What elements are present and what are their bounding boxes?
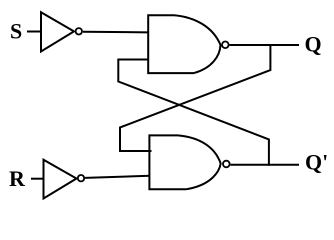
wire S to inverter input — [27, 31, 41, 33]
nand gate U4 (bottom) body — [149, 135, 220, 189]
svg-text:S: S — [10, 19, 22, 44]
inverter U1 output bubble — [76, 28, 82, 34]
nand gate U3 (top) body — [148, 15, 220, 73]
wire inverter U1 to NAND U3 input 1 — [83, 31, 148, 34]
svg-text:Q': Q' — [305, 150, 328, 175]
svg-text:R: R — [9, 166, 26, 191]
inverter U2 triangle — [44, 160, 77, 199]
wire R to inverter input — [31, 178, 44, 180]
wire feedback Q' to NAND U3 input 2 (junction at 269,164.8) — [118, 60, 269, 166]
nand gate U3 output bubble — [222, 42, 229, 49]
wire U4 output to Q' — [230, 164, 299, 166]
inverter U1 triangle — [41, 12, 74, 51]
wire U3 output to Q — [230, 44, 300, 46]
nand gate U4 output bubble — [223, 161, 230, 168]
wire feedback Q to NAND U4 input 1 (junction at 270.4,45) — [120, 44, 270, 151]
inverter U2 output bubble — [78, 175, 84, 181]
svg-text:Q: Q — [305, 32, 322, 57]
wire inverter U2 to NAND U4 input 2 — [85, 176, 150, 178]
